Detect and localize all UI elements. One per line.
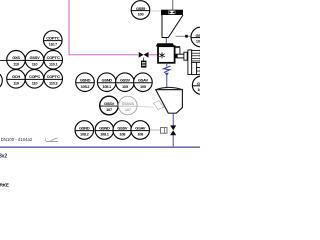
header line (slate) [0,146,200,148]
svg-text:COPT'C: COPT'C [46,35,60,40]
instrument bubble right edge 2 [192,76,210,94]
instrument bubble COPT'C 110.1 [44,51,63,70]
instrument bubble GSAV 108 [131,121,150,140]
feed pipe into hopper [172,0,174,10]
instrument bubble GSV 110 [25,51,44,70]
solenoid box under valve V1 [141,61,146,68]
instrument bubble GSSV 108 [113,121,132,140]
svg-text:110.1: 110.1 [49,61,58,66]
partial bubble at left edge [0,71,2,90]
svg-text:COPT'C: COPT'C [47,55,61,60]
motor mounting plate [188,50,192,75]
motor body with fins [192,50,201,62]
svg-text:GSAV: GSAV [138,78,148,83]
blue pipe to weigh hopper [166,76,168,88]
svg-text:GS55: GS55 [136,6,146,11]
svg-text:G5: G5 [197,81,200,86]
valve V1 on magenta line [139,52,149,61]
svg-text:COPT'C: COPT'C [47,74,61,79]
grey mark 1" [45,137,58,142]
motor foot [192,62,201,74]
signal line bubble100 to hopper [150,10,163,12]
svg-text:10: 10 [197,87,200,92]
pipe (magenta) vertical + horizontal [69,0,138,55]
svg-text:GSND: GSND [80,78,91,83]
motor bracket [175,46,181,48]
discharge valve (hourglass) [170,125,176,135]
blue drop line from hopper to mixer lid [165,38,167,43]
svg-text:108.1: 108.1 [100,132,110,137]
weigh hopper funnel [156,87,183,89]
svg-text:GSSV: GSSV [30,55,41,60]
svg-text:110: 110 [13,80,19,85]
hopper body [162,15,183,38]
instrument bubble GCH 110 [7,70,26,89]
instrument bubble GSAV 105 [134,73,153,92]
flexible sleeve symbol (blue S) [164,66,171,73]
instrument bubble right edge (GS5 100) [191,27,211,47]
motor coupling [184,52,187,60]
svg-text:107: 107 [106,107,112,112]
instrument bubble GS55 100 [131,1,150,20]
svg-text:10x: 10x [196,39,200,44]
grey signal line to chute [137,105,154,108]
svg-text:GSSV: GSSV [120,78,131,83]
svg-text:8x2: 8x2 [0,154,7,160]
svg-text:GSAV: GSAV [135,125,145,130]
instrument bubble GSND 105.2 [76,73,95,92]
blue pipe below valve [172,135,174,147]
line to right-edge bubble (y=36.6) [176,35,191,37]
instrument bubble GSND 108.1 [95,121,114,140]
svg-text:GSNVA: GSNVA [122,101,135,106]
agitator star [159,52,164,58]
instrument line (left stub at y=59) [0,59,7,61]
instrument bubble GSSV 105 [116,73,135,92]
svg-text:GSND: GSND [79,125,90,130]
instrument bubble GSND 105.1 [97,73,116,92]
blue pipe funnel outlet [172,114,174,126]
svg-text:110: 110 [32,61,38,66]
valve actuator box [150,128,167,134]
mixer vessel M1 [158,46,175,63]
instrument bubble COPT'C 110.7 [44,31,63,50]
svg-text:110.7: 110.7 [49,42,57,47]
svg-text:107: 107 [125,107,131,112]
svg-text:100: 100 [138,12,144,17]
instrument bubble GSND 108.2 [75,121,94,140]
mixer lid [156,43,175,46]
instrument bubble COPC 110 [25,70,44,89]
svg-text:105.2: 105.2 [81,84,91,89]
svg-text:GSND: GSND [99,125,110,130]
svg-text:110.3: 110.3 [49,80,58,85]
svg-text:DN100 - d104a2: DN100 - d104a2 [1,137,33,142]
butterfly valve band on hopper top [161,10,183,15]
svg-text:COP'C: COP'C [29,74,40,79]
svg-text:GXS: GXS [12,55,20,60]
svg-text:GCH: GCH [12,74,20,79]
grey side chute [153,101,163,110]
svg-text:110: 110 [32,80,38,85]
svg-text:GSSV: GSSV [104,101,115,106]
svg-text:110: 110 [13,61,19,66]
svg-text:GS5: GS5 [195,33,200,38]
svg-text:RtŒ: RtŒ [0,183,9,189]
svg-text:GSSV: GSSV [117,125,128,130]
instrument bubble GSNVA 107 (grey/future) [119,96,138,115]
instrument bubble GCS 110 [7,51,26,70]
svg-text:105.1: 105.1 [102,84,112,89]
instrument bubble GSSV 107 [100,96,119,115]
svg-text:108.2: 108.2 [80,132,90,137]
motor shaft [175,54,177,58]
svg-text:GSND: GSND [102,78,113,83]
instrument bubble COPT'C 110.3 [44,70,63,89]
blue outlet below mixer [166,63,168,67]
